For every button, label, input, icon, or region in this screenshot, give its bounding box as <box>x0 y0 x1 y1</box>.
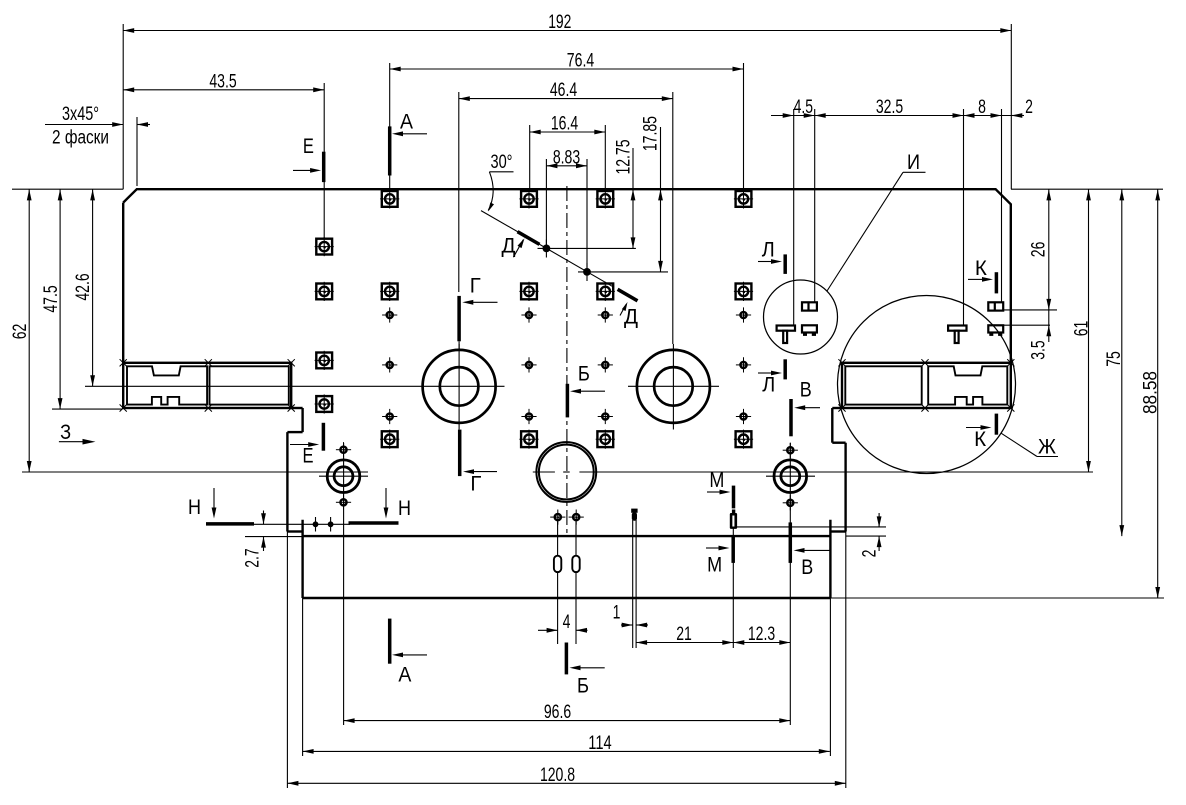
svg-text:В: В <box>800 378 812 402</box>
svg-text:М: М <box>707 552 722 576</box>
svg-text:3x45°: 3x45° <box>62 103 99 125</box>
svg-text:75: 75 <box>1103 351 1125 367</box>
svg-text:Б: Б <box>578 362 590 386</box>
svg-text:4: 4 <box>563 611 571 633</box>
svg-text:42.6: 42.6 <box>72 273 94 300</box>
svg-text:12.75: 12.75 <box>613 139 635 174</box>
svg-text:З: З <box>60 420 71 444</box>
svg-text:1: 1 <box>613 602 621 624</box>
svg-text:Ж: Ж <box>1038 435 1056 459</box>
svg-text:2.7: 2.7 <box>242 548 264 567</box>
svg-text:Г: Г <box>470 472 481 496</box>
svg-text:26: 26 <box>1028 242 1050 258</box>
svg-text:12.3: 12.3 <box>748 623 775 645</box>
svg-text:Л: Л <box>762 373 775 397</box>
svg-text:8: 8 <box>978 96 986 118</box>
svg-text:А: А <box>400 110 414 134</box>
svg-text:Н: Н <box>398 496 411 520</box>
svg-text:Е: Е <box>303 444 314 468</box>
svg-text:192: 192 <box>548 11 571 33</box>
svg-text:И: И <box>907 150 920 174</box>
svg-text:114: 114 <box>588 732 611 754</box>
svg-text:88.58: 88.58 <box>1140 371 1162 414</box>
svg-text:47.5: 47.5 <box>40 285 62 312</box>
svg-text:21: 21 <box>676 623 692 645</box>
svg-text:Е: Е <box>303 134 314 158</box>
svg-text:43.5: 43.5 <box>209 70 236 92</box>
svg-text:Л: Л <box>762 238 775 262</box>
svg-text:76.4: 76.4 <box>567 50 594 72</box>
svg-text:Г: Г <box>470 274 481 298</box>
svg-text:4.5: 4.5 <box>794 96 813 118</box>
svg-text:Б: Б <box>577 673 589 697</box>
svg-text:30°: 30° <box>491 151 513 173</box>
svg-text:Д: Д <box>502 234 516 258</box>
svg-text:8.83: 8.83 <box>553 146 580 168</box>
svg-text:46.4: 46.4 <box>550 79 577 101</box>
svg-text:32.5: 32.5 <box>876 96 903 118</box>
svg-text:2: 2 <box>1025 96 1033 118</box>
svg-text:96.6: 96.6 <box>544 701 571 723</box>
svg-text:2: 2 <box>859 550 881 558</box>
svg-text:М: М <box>709 468 724 492</box>
svg-text:62: 62 <box>9 324 31 340</box>
svg-text:А: А <box>398 663 412 687</box>
svg-text:17.85: 17.85 <box>640 116 662 151</box>
svg-text:61: 61 <box>1071 321 1093 337</box>
svg-text:3.5: 3.5 <box>1027 340 1049 359</box>
svg-text:16.4: 16.4 <box>551 113 578 135</box>
svg-text:К: К <box>975 256 987 280</box>
svg-text:2 фаски: 2 фаски <box>52 127 109 149</box>
svg-text:В: В <box>801 555 813 579</box>
svg-text:120.8: 120.8 <box>540 764 575 786</box>
svg-text:Н: Н <box>188 495 201 519</box>
svg-text:К: К <box>974 427 986 451</box>
